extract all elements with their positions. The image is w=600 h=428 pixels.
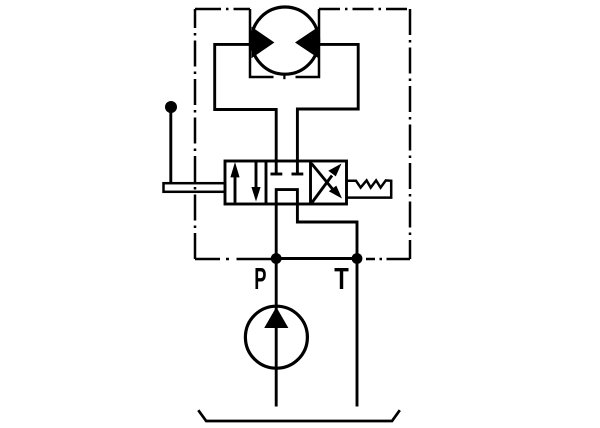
node P junction dot: [271, 253, 282, 264]
valve divider 1: [265, 161, 268, 204]
enclosure boundary bottom edge left part: [195, 258, 233, 261]
lever ball: [165, 101, 177, 113]
wire: valve T port jog to node T: [297, 204, 357, 259]
motor M1 circle: [251, 7, 318, 74]
wire: P-T face line on boundary: [276, 257, 357, 260]
motor right triangle: [295, 27, 319, 58]
lever shaft: [169, 110, 172, 183]
return spring: [347, 180, 392, 197]
center position blocked port A stub: [275, 161, 278, 174]
wire: node P down through pump to tank: [275, 259, 278, 407]
lever actuator box: [164, 183, 226, 192]
left position up arrow: [234, 171, 237, 203]
center position blocked port B stub: [296, 161, 299, 174]
svg-text:P: P: [254, 262, 266, 296]
enclosure boundary top-left segment: [195, 8, 250, 11]
motor left triangle: [252, 27, 275, 58]
pump P1 circle: [245, 306, 307, 368]
enclosure boundary bottom edge right part: [366, 258, 410, 261]
right position crossed arrow P-B: [312, 176, 332, 203]
valve V1 body: [225, 161, 347, 204]
enclosure boundary notch around motor: [250, 9, 319, 77]
right position crossed arrow A-T: [312, 164, 333, 190]
center position P-T bypass bracket: [276, 190, 297, 204]
enclosure boundary top-right segment: [319, 8, 410, 11]
enclosure boundary bottom edge dash into node P: [237, 258, 277, 261]
svg-text:T: T: [334, 261, 349, 296]
valve divider 2: [309, 161, 312, 204]
enclosure boundary left edge: [194, 9, 197, 259]
tank reservoir: [198, 410, 399, 421]
wire: motor left port loop down to valve port A: [215, 44, 277, 161]
wire: node T down to tank: [356, 259, 359, 407]
left position down arrow: [255, 162, 258, 193]
wire: motor right port loop down to valve port B: [297, 44, 358, 161]
wire: valve P port down to node P: [275, 204, 278, 259]
motor drain tip: [283, 74, 285, 79]
node T junction dot: [352, 253, 363, 264]
enclosure boundary right edge: [409, 9, 412, 259]
pump triangle: [264, 307, 288, 328]
